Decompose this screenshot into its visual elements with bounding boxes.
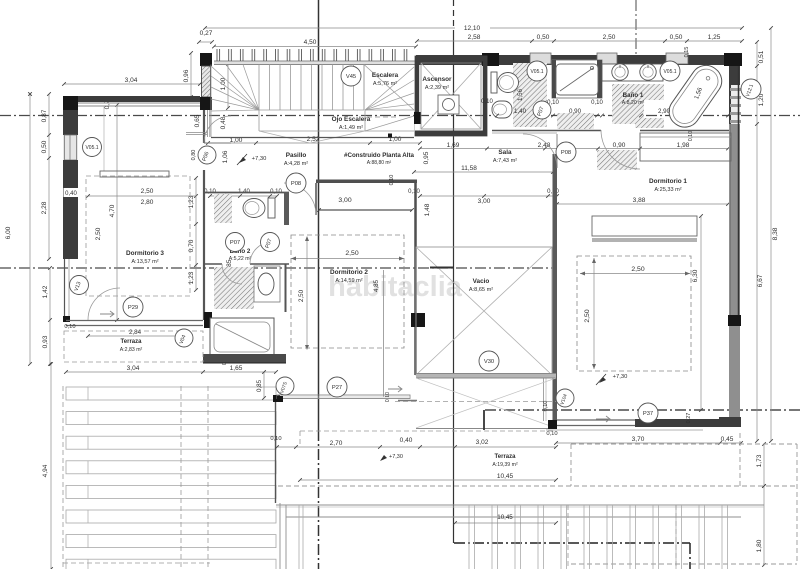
- svg-text:V05.1: V05.1: [663, 69, 676, 75]
- svg-text:0,93: 0,93: [42, 335, 49, 348]
- svg-text:0,80: 0,80: [191, 150, 197, 161]
- svg-text:1,69: 1,69: [447, 142, 460, 149]
- svg-text:2,50: 2,50: [631, 266, 644, 273]
- svg-text:2,28: 2,28: [41, 201, 48, 214]
- svg-text:Ascensor: Ascensor: [422, 76, 452, 83]
- svg-text:1,56: 1,56: [517, 88, 524, 101]
- svg-text:6,30: 6,30: [692, 269, 699, 282]
- svg-text:1,25: 1,25: [708, 34, 721, 41]
- svg-text:Terraza: Terraza: [495, 454, 517, 460]
- svg-text:0,40: 0,40: [65, 191, 77, 197]
- svg-text:0,95: 0,95: [423, 151, 430, 164]
- svg-text:Dormitorio 1: Dormitorio 1: [649, 178, 687, 185]
- svg-text:A:5,22 m²: A:5,22 m²: [229, 256, 252, 262]
- svg-text:P29: P29: [128, 305, 138, 311]
- svg-text:V05.1: V05.1: [85, 145, 98, 151]
- svg-text:0,27: 0,27: [200, 30, 213, 37]
- svg-text:2,50: 2,50: [584, 309, 591, 322]
- svg-text:3,00: 3,00: [338, 197, 351, 204]
- svg-text:1,73: 1,73: [756, 454, 763, 467]
- svg-text:P08: P08: [291, 181, 301, 187]
- svg-text:0,27: 0,27: [686, 413, 692, 424]
- svg-text:Sala: Sala: [498, 149, 512, 156]
- svg-text:3,88: 3,88: [633, 197, 646, 204]
- svg-text:2,50: 2,50: [141, 188, 154, 195]
- svg-text:+7,30: +7,30: [389, 454, 403, 460]
- svg-text:A:8,65 m²: A:8,65 m²: [469, 287, 493, 293]
- svg-text:0,45: 0,45: [721, 436, 734, 443]
- svg-text:A:13,57 m²: A:13,57 m²: [131, 259, 158, 265]
- svg-text:A:2,83 m²: A:2,83 m²: [120, 347, 143, 353]
- svg-text:3,02: 3,02: [476, 439, 489, 446]
- svg-text:6,67: 6,67: [757, 274, 764, 287]
- svg-text:1,40: 1,40: [514, 108, 527, 115]
- svg-text:0,40: 0,40: [400, 437, 413, 444]
- svg-text:0,90: 0,90: [613, 142, 626, 149]
- svg-text:0,50: 0,50: [41, 140, 48, 153]
- svg-text:0,96: 0,96: [183, 69, 190, 82]
- svg-text:3,70: 3,70: [632, 436, 645, 443]
- svg-text:P27: P27: [332, 385, 342, 391]
- svg-text:2,58: 2,58: [468, 34, 481, 41]
- svg-text:3,04: 3,04: [125, 77, 138, 84]
- svg-text:Ojo Escalera: Ojo Escalera: [332, 116, 371, 123]
- svg-text:2,50: 2,50: [603, 34, 616, 41]
- svg-text:0,90: 0,90: [569, 108, 582, 115]
- svg-text:0,15: 0,15: [684, 47, 690, 58]
- svg-text:0,10: 0,10: [688, 131, 694, 141]
- svg-text:1,48: 1,48: [424, 203, 431, 216]
- svg-text:A:88,80 m²: A:88,80 m²: [367, 160, 392, 166]
- svg-text:0,10: 0,10: [270, 436, 281, 442]
- svg-text:V30: V30: [484, 359, 494, 365]
- svg-text:Terraza: Terraza: [121, 339, 143, 345]
- svg-text:0,50: 0,50: [670, 34, 683, 41]
- svg-text:2,80: 2,80: [141, 199, 154, 206]
- svg-text:Pasillo: Pasillo: [286, 152, 307, 159]
- svg-text:8,38: 8,38: [772, 227, 779, 240]
- svg-text:A:25,33 m²: A:25,33 m²: [654, 187, 681, 193]
- svg-text:P37: P37: [643, 411, 653, 417]
- svg-text:11,58: 11,58: [461, 165, 477, 172]
- svg-text:A:19,39 m²: A:19,39 m²: [492, 462, 518, 468]
- svg-text:0,10: 0,10: [481, 99, 493, 105]
- svg-text:1,23: 1,23: [188, 271, 195, 284]
- svg-text:2,50: 2,50: [298, 289, 305, 302]
- svg-text:4,70: 4,70: [109, 204, 116, 217]
- svg-text:1,42: 1,42: [42, 285, 49, 298]
- svg-text:0,70: 0,70: [188, 239, 195, 252]
- svg-text:Vacio: Vacio: [473, 278, 490, 285]
- svg-text:6,00: 6,00: [5, 226, 12, 239]
- svg-text:V45: V45: [346, 74, 356, 80]
- svg-text:10,45: 10,45: [497, 514, 513, 521]
- svg-text:0,48: 0,48: [220, 116, 227, 129]
- svg-text:2,50: 2,50: [95, 227, 102, 240]
- svg-text:A:2,39 m²: A:2,39 m²: [425, 85, 449, 91]
- svg-text:P07: P07: [230, 240, 240, 246]
- svg-text:Dormitorio 2: Dormitorio 2: [330, 269, 368, 276]
- svg-text:1,23: 1,23: [188, 195, 195, 208]
- svg-text:A:1,49 m²: A:1,49 m²: [339, 125, 363, 131]
- svg-text:0,10: 0,10: [591, 100, 603, 106]
- svg-text:1,80: 1,80: [756, 539, 763, 552]
- svg-text:P08: P08: [561, 150, 571, 156]
- svg-text:A:14,59 m²: A:14,59 m²: [335, 278, 362, 284]
- svg-text:2,90: 2,90: [658, 108, 671, 115]
- svg-text:1,06: 1,06: [222, 150, 229, 163]
- svg-text:+7,30: +7,30: [252, 156, 267, 162]
- svg-text:A:8,20 m²: A:8,20 m²: [622, 100, 645, 106]
- svg-text:Escalera: Escalera: [372, 72, 399, 79]
- svg-text:0,10: 0,10: [64, 324, 75, 330]
- svg-text:1,98: 1,98: [677, 142, 690, 149]
- svg-text:0,65: 0,65: [194, 114, 201, 127]
- svg-text:10,45: 10,45: [497, 473, 514, 480]
- svg-text:#Construido Planta Alta: #Construido Planta Alta: [344, 152, 414, 159]
- svg-text:2,70: 2,70: [330, 440, 343, 447]
- svg-text:0,51: 0,51: [758, 50, 765, 63]
- svg-text:3,00: 3,00: [478, 198, 491, 205]
- svg-text:A:7,43 m²: A:7,43 m²: [493, 158, 517, 164]
- svg-text:0,50: 0,50: [537, 34, 550, 41]
- svg-text:12,10: 12,10: [464, 25, 481, 32]
- svg-text:A:5,76 m²: A:5,76 m²: [373, 81, 397, 87]
- svg-text:V05.1: V05.1: [530, 69, 543, 75]
- svg-text:3,04: 3,04: [127, 365, 140, 372]
- svg-text:0,10: 0,10: [546, 431, 557, 437]
- svg-text:4,94: 4,94: [42, 464, 49, 477]
- svg-text:2,84: 2,84: [129, 329, 142, 336]
- svg-text:0,87: 0,87: [41, 109, 48, 122]
- svg-text:1,65: 1,65: [230, 365, 243, 372]
- svg-text:0,85: 0,85: [256, 379, 263, 392]
- svg-text:0,10: 0,10: [543, 401, 549, 412]
- svg-text:Dormitorio 3: Dormitorio 3: [126, 250, 164, 257]
- svg-text:+7,30: +7,30: [613, 374, 628, 380]
- svg-text:4,85: 4,85: [373, 279, 380, 292]
- svg-text:Baño 1: Baño 1: [623, 92, 644, 99]
- svg-text:2,50: 2,50: [345, 250, 358, 257]
- svg-text:A:4,28 m²: A:4,28 m²: [284, 161, 308, 167]
- svg-text:0,10: 0,10: [389, 175, 395, 186]
- svg-text:4,50: 4,50: [304, 39, 317, 46]
